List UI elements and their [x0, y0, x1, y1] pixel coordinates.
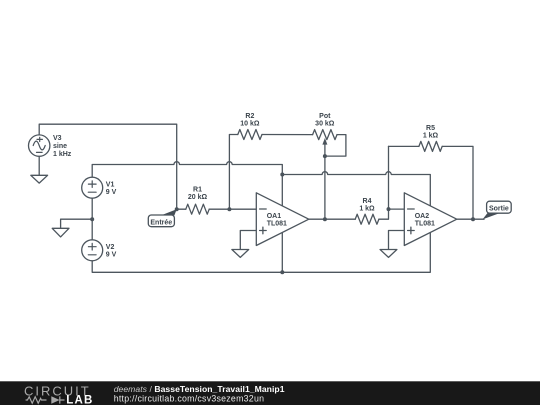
- svg-text:OA2: OA2: [415, 213, 430, 220]
- svg-text:R4: R4: [363, 198, 372, 205]
- svg-text:1 kHz: 1 kHz: [53, 151, 72, 158]
- svg-text:10 kΩ: 10 kΩ: [240, 121, 260, 128]
- svg-text:Entrée: Entrée: [150, 219, 172, 226]
- svg-text:V2: V2: [106, 244, 115, 251]
- svg-text:sine: sine: [53, 143, 67, 150]
- svg-text:R5: R5: [426, 125, 435, 132]
- svg-text:TL081: TL081: [415, 220, 435, 227]
- svg-text:http://circuitlab.com/csv3seze: http://circuitlab.com/csv3sezem32un: [114, 393, 265, 403]
- svg-text:R2: R2: [245, 113, 254, 120]
- svg-text:20 kΩ: 20 kΩ: [188, 194, 208, 201]
- svg-text:1 kΩ: 1 kΩ: [359, 206, 375, 213]
- svg-text:1 kΩ: 1 kΩ: [423, 133, 439, 140]
- svg-text:deemats / BasseTension_Travail: deemats / BasseTension_Travail1_Manip1: [114, 384, 285, 394]
- svg-text:Pot: Pot: [319, 113, 331, 120]
- svg-text:TL081: TL081: [267, 220, 287, 227]
- svg-text:OA1: OA1: [267, 213, 282, 220]
- svg-text:V3: V3: [53, 135, 62, 142]
- svg-text:30 kΩ: 30 kΩ: [315, 121, 335, 128]
- svg-text:R1: R1: [193, 187, 202, 194]
- svg-text:9 V: 9 V: [106, 189, 117, 196]
- svg-text:LAB: LAB: [66, 394, 93, 405]
- svg-text:V1: V1: [106, 181, 115, 188]
- svg-text:9 V: 9 V: [106, 252, 117, 259]
- svg-text:Sortie: Sortie: [489, 205, 509, 212]
